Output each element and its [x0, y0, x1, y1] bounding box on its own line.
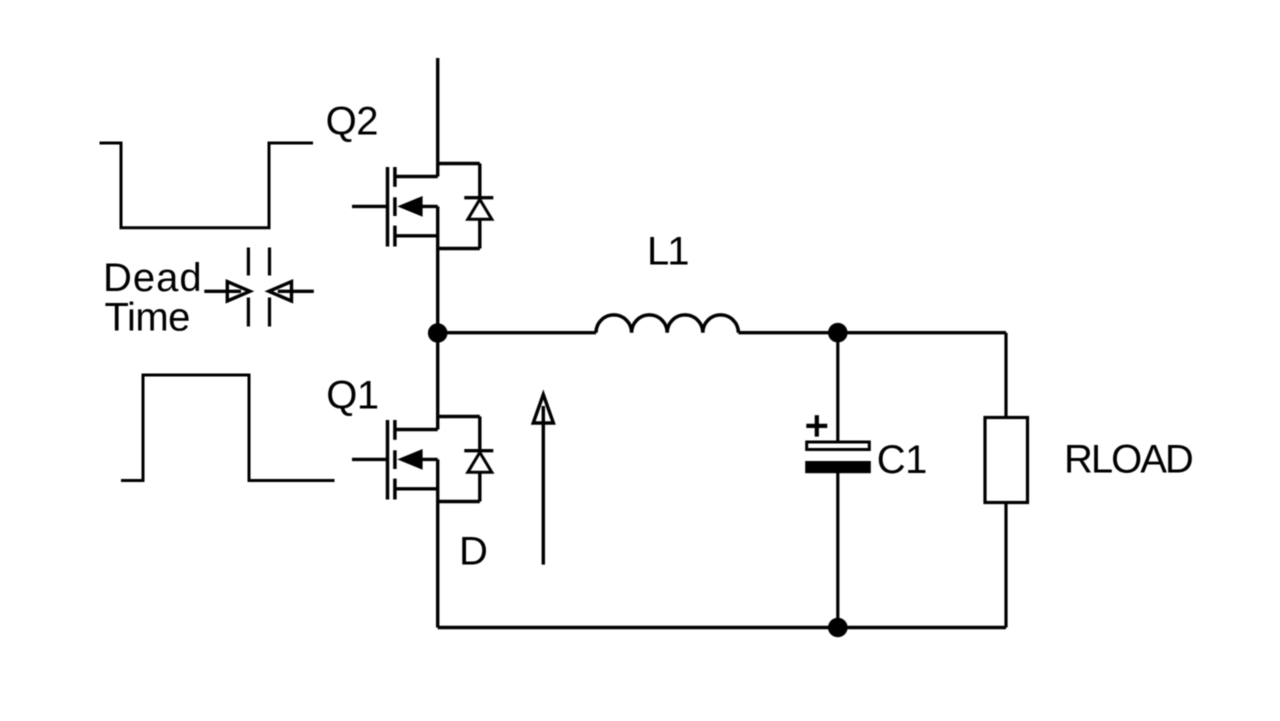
- bottom plate (solid): [805, 461, 871, 473]
- svg-text:D: D: [459, 530, 487, 574]
- waveform Q1 gate drive (bottom-left): [121, 375, 335, 481]
- wire: bottom rail: [438, 626, 1006, 629]
- wire: top node down to plate: [836, 333, 839, 441]
- wire: switch node to inductor: [438, 331, 596, 334]
- dead-time arrow left: [204, 282, 250, 301]
- gate lead: [352, 205, 388, 208]
- node: switch node junction dot: [428, 323, 448, 343]
- wire: input rail into Q2 drain: [436, 58, 439, 177]
- wire: Q2 body/source down through switch node to Q1 drain: [436, 206, 439, 429]
- svg-text:Time: Time: [105, 296, 190, 340]
- plus sign: [806, 415, 827, 436]
- inductor current arrow (up): [533, 395, 553, 565]
- svg-text:L1: L1: [647, 230, 688, 274]
- wire: inductor to output corner: [738, 331, 1006, 334]
- svg-text:C1: C1: [877, 438, 927, 482]
- source connection: [395, 234, 438, 237]
- dead-time dashed line left: [247, 248, 250, 327]
- wire: bottom plate down to bottom rail: [836, 473, 839, 628]
- svg-text:Dead: Dead: [103, 256, 203, 300]
- node: output bottom junction dot: [828, 618, 848, 638]
- wire: Q1 body/source down to bottom rail: [436, 459, 439, 627]
- transistor Q2 (N-MOSFET with body diode): [352, 164, 493, 249]
- svg-text:Q1: Q1: [326, 373, 378, 417]
- channel dashes: [393, 167, 397, 187]
- body diode branch: [478, 164, 481, 198]
- body connection with arrow: [420, 205, 438, 208]
- waveform Q2 gate drive (top-left): [100, 143, 314, 228]
- gate bar: [386, 167, 390, 247]
- inductor L1: [596, 315, 738, 333]
- tee to body diode top: [438, 162, 480, 165]
- drain connection: [395, 175, 438, 178]
- dead-time arrow right: [269, 282, 314, 301]
- transistor Q1 (N-MOSFET with body diode): [352, 417, 493, 502]
- node: output top junction dot: [828, 323, 848, 343]
- dead-time dashed line right: [268, 248, 271, 327]
- svg-text:RLOAD: RLOAD: [1064, 438, 1192, 482]
- resistor RLOAD: [985, 333, 1028, 628]
- tee to body diode bottom: [438, 247, 480, 250]
- svg-text:Q2: Q2: [326, 100, 378, 144]
- capacitor C1 (polarized): [805, 333, 871, 628]
- top plate (hollow): [807, 442, 870, 450]
